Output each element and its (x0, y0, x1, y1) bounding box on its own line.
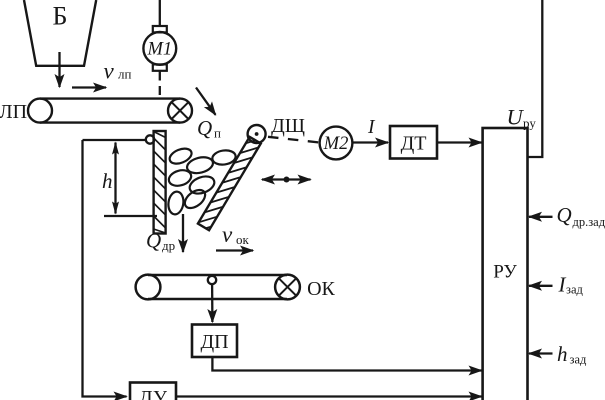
svg-text:ЛП: ЛП (0, 101, 27, 123)
svg-text:Б: Б (53, 2, 68, 31)
svg-text:зад: зад (566, 283, 583, 297)
arrow from hopper to belt (58, 52, 60, 87)
conveyor OK belt lines (148, 275, 287, 299)
wire U_ru to M1 supply (528, 0, 543, 157)
wire M2 to DT (353, 141, 389, 143)
svg-text:ДЩ: ДЩ (271, 115, 305, 137)
weigher pickup circle (208, 276, 216, 284)
svg-text:ок: ок (236, 232, 250, 247)
wall (vertical hatched bar) (154, 131, 166, 234)
pivot circle on wall (146, 135, 154, 143)
label Q_dr.zad (557, 203, 605, 229)
double-headed stroke arrow (262, 177, 311, 183)
wire top to pivot (83, 139, 146, 141)
arrow v_lp (72, 86, 106, 88)
block RU (regulator) (483, 128, 528, 400)
arrow v_ok (216, 249, 253, 251)
h dimension arrow (114, 143, 116, 214)
conveyor LP belt lines (40, 99, 180, 123)
ore lumps (ellipses) (167, 146, 237, 216)
svg-text:Q: Q (197, 116, 212, 140)
dashed shaft to M2 (268, 137, 319, 143)
svg-text:U: U (507, 105, 525, 130)
wire DP to RU (212, 357, 481, 371)
motor M1 (143, 0, 176, 71)
label v_ok (222, 222, 250, 247)
svg-text:зад: зад (570, 353, 587, 367)
hopper B (bunker) (24, 0, 96, 66)
label U_ru (507, 105, 537, 131)
svg-text:h: h (102, 169, 113, 193)
wire DT to RU (437, 141, 482, 143)
svg-text:п: п (214, 126, 221, 141)
svg-text:Q: Q (557, 203, 572, 227)
svg-text:РУ: РУ (493, 262, 517, 283)
wire DU to RU (176, 395, 482, 397)
svg-text:лп: лп (118, 67, 131, 82)
arrow Q_dr down (182, 214, 184, 252)
block DP (192, 325, 237, 358)
svg-text:ДП: ДП (200, 331, 228, 353)
left feedback wire (h sensor line down) (83, 140, 127, 397)
setpoint arrow Q_dr.zad (529, 216, 553, 218)
svg-text:ДТ: ДТ (401, 133, 427, 155)
svg-text:I: I (367, 117, 376, 138)
label I_zad (558, 273, 584, 297)
label Q_p (197, 116, 221, 141)
label h_zad (557, 342, 587, 367)
arrow Q_p diagonal (196, 88, 216, 115)
conveyor OK left pulley (136, 275, 161, 300)
conveyor LP right drive pulley (crossed) (168, 99, 192, 123)
setpoint arrow h_zad (529, 352, 553, 354)
svg-text:др.зад: др.зад (573, 215, 605, 229)
dashed shaft M1 to pulley (159, 72, 161, 99)
svg-text:h: h (557, 342, 568, 366)
h dimension bottom line (104, 215, 157, 217)
svg-text:ОК: ОК (307, 278, 335, 300)
wire pickup to DP (211, 284, 214, 322)
svg-text:Q: Q (146, 229, 161, 253)
svg-text:др: др (162, 238, 175, 253)
setpoint arrow I_zad (529, 285, 553, 287)
motor M2 (320, 127, 353, 160)
block DT (390, 126, 437, 159)
label Q_dr (146, 229, 175, 254)
block DU (130, 383, 176, 400)
svg-text:M2: M2 (323, 134, 349, 154)
conveyor OK right drive pulley (crossed) (275, 275, 300, 300)
conveyor LP left pulley (28, 99, 52, 123)
svg-text:M1: M1 (146, 40, 172, 60)
pivot circle of jaw (248, 125, 266, 143)
svg-text:v: v (222, 222, 233, 247)
jaw screen DShch (slanted hatched bar) (193, 131, 264, 239)
svg-text:ДУ: ДУ (139, 387, 168, 400)
svg-text:ру: ру (523, 116, 536, 131)
label v_lp (104, 59, 132, 84)
svg-text:v: v (104, 59, 115, 84)
